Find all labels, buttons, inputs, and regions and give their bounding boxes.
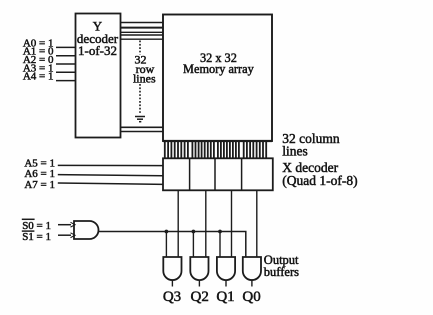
bus: 32 column lines group 1 bbox=[165, 142, 188, 159]
svg-text:Memory array: Memory array bbox=[183, 62, 255, 76]
wire Q1 output stub bbox=[225, 280, 227, 286]
node Q2 label bbox=[191, 289, 209, 305]
svg-text:lines: lines bbox=[133, 71, 156, 85]
node A4 label bbox=[23, 71, 54, 83]
decoder U1 Y decoder 1-of-32 bbox=[76, 14, 121, 138]
wire A4 bbox=[56, 80, 76, 82]
svg-text:1-of-32: 1-of-32 bbox=[78, 43, 117, 58]
node S0bar label bbox=[22, 219, 51, 232]
wire data D2 bbox=[205, 190, 207, 257]
dotted continuation line (row lines) bbox=[139, 41, 141, 115]
svg-text:lines: lines bbox=[282, 143, 308, 158]
buffer U8 (Q0 output buffer) bbox=[243, 257, 261, 280]
svg-text:Q0: Q0 bbox=[242, 289, 260, 305]
wire A3 bbox=[56, 71, 76, 73]
junction dot 2 bbox=[192, 230, 196, 234]
wire A0 bbox=[56, 46, 76, 48]
svg-text:Q1: Q1 bbox=[216, 289, 234, 305]
svg-text:A7 = 1: A7 = 1 bbox=[24, 179, 55, 191]
wire Q0 output stub bbox=[251, 280, 253, 286]
buffer U5 (Q3 output buffer) bbox=[163, 257, 181, 280]
buffer U6 (Q2 output buffer) bbox=[190, 257, 208, 280]
node A1 label bbox=[23, 46, 54, 58]
bus: 32 column lines group 3 bbox=[218, 142, 239, 159]
wire A7 bbox=[58, 183, 163, 184]
svg-text:Q2: Q2 bbox=[191, 289, 209, 305]
svg-text:(Quad 1-of-8): (Quad 1-of-8) bbox=[282, 173, 357, 188]
svg-text:buffers: buffers bbox=[264, 265, 299, 279]
bus: 32 column lines group 4 bbox=[244, 142, 267, 159]
decoder U3 X decoder (Quad 1-of-8) bbox=[163, 158, 273, 190]
wire A2 bbox=[56, 63, 76, 65]
svg-text:S1 = 1: S1 = 1 bbox=[22, 231, 51, 243]
label: X decoder bbox=[282, 160, 338, 175]
node A3 label bbox=[23, 62, 54, 74]
junction dot 1 bbox=[165, 230, 169, 234]
svg-text:A4 = 1: A4 = 1 bbox=[23, 71, 54, 83]
wire Q3 output stub bbox=[171, 280, 173, 286]
continuation/ellipsis symbol bbox=[135, 117, 145, 122]
buffer U7 (Q1 output buffer) bbox=[217, 257, 235, 280]
bus: 32 row lines (top group) bbox=[121, 23, 164, 40]
wire Q2 output stub bbox=[198, 280, 200, 286]
node Q1 label bbox=[216, 289, 234, 305]
node S1bar label bbox=[22, 231, 51, 243]
label: Output buffers bbox=[264, 253, 299, 279]
wire enable (gate output to buffers) bbox=[99, 232, 246, 258]
bus: 32 row lines (bottom group) bbox=[121, 127, 164, 131]
node A0 label bbox=[23, 37, 54, 49]
node A6 label bbox=[24, 168, 55, 180]
wire A1 bbox=[56, 55, 76, 57]
node Q3 label bbox=[163, 289, 181, 305]
wire enable stub Q1 buffer bbox=[219, 232, 221, 258]
label: 32 column lines bbox=[282, 131, 340, 158]
node A2 label bbox=[23, 54, 54, 66]
wire A6 bbox=[58, 175, 163, 176]
node A7 label bbox=[24, 179, 55, 191]
label: 32 row lines bbox=[133, 52, 156, 85]
node Q0 label bbox=[242, 289, 260, 305]
wire data D0 bbox=[256, 190, 258, 257]
wire data D1 bbox=[231, 190, 233, 257]
gate U4 enable AND bbox=[71, 221, 99, 239]
svg-text:Q3: Q3 bbox=[163, 289, 181, 305]
wire S0 bbox=[58, 224, 71, 226]
junction dot 3 bbox=[218, 230, 222, 234]
wire S1 bbox=[58, 234, 71, 236]
memory array bottom edge (thick) bbox=[163, 140, 272, 142]
node A5 label bbox=[24, 157, 55, 169]
memory array U2 32x32 bbox=[163, 15, 272, 142]
label: (Quad 1-of-8) bbox=[282, 173, 357, 188]
bus: 32 column lines group 2 bbox=[192, 142, 214, 159]
wire A5 bbox=[58, 164, 163, 166]
wire enable stub Q3 buffer bbox=[165, 232, 167, 258]
wire data D3 (X decoder to Q3 buffer) bbox=[177, 190, 179, 257]
wire enable stub Q2 buffer bbox=[192, 232, 194, 258]
